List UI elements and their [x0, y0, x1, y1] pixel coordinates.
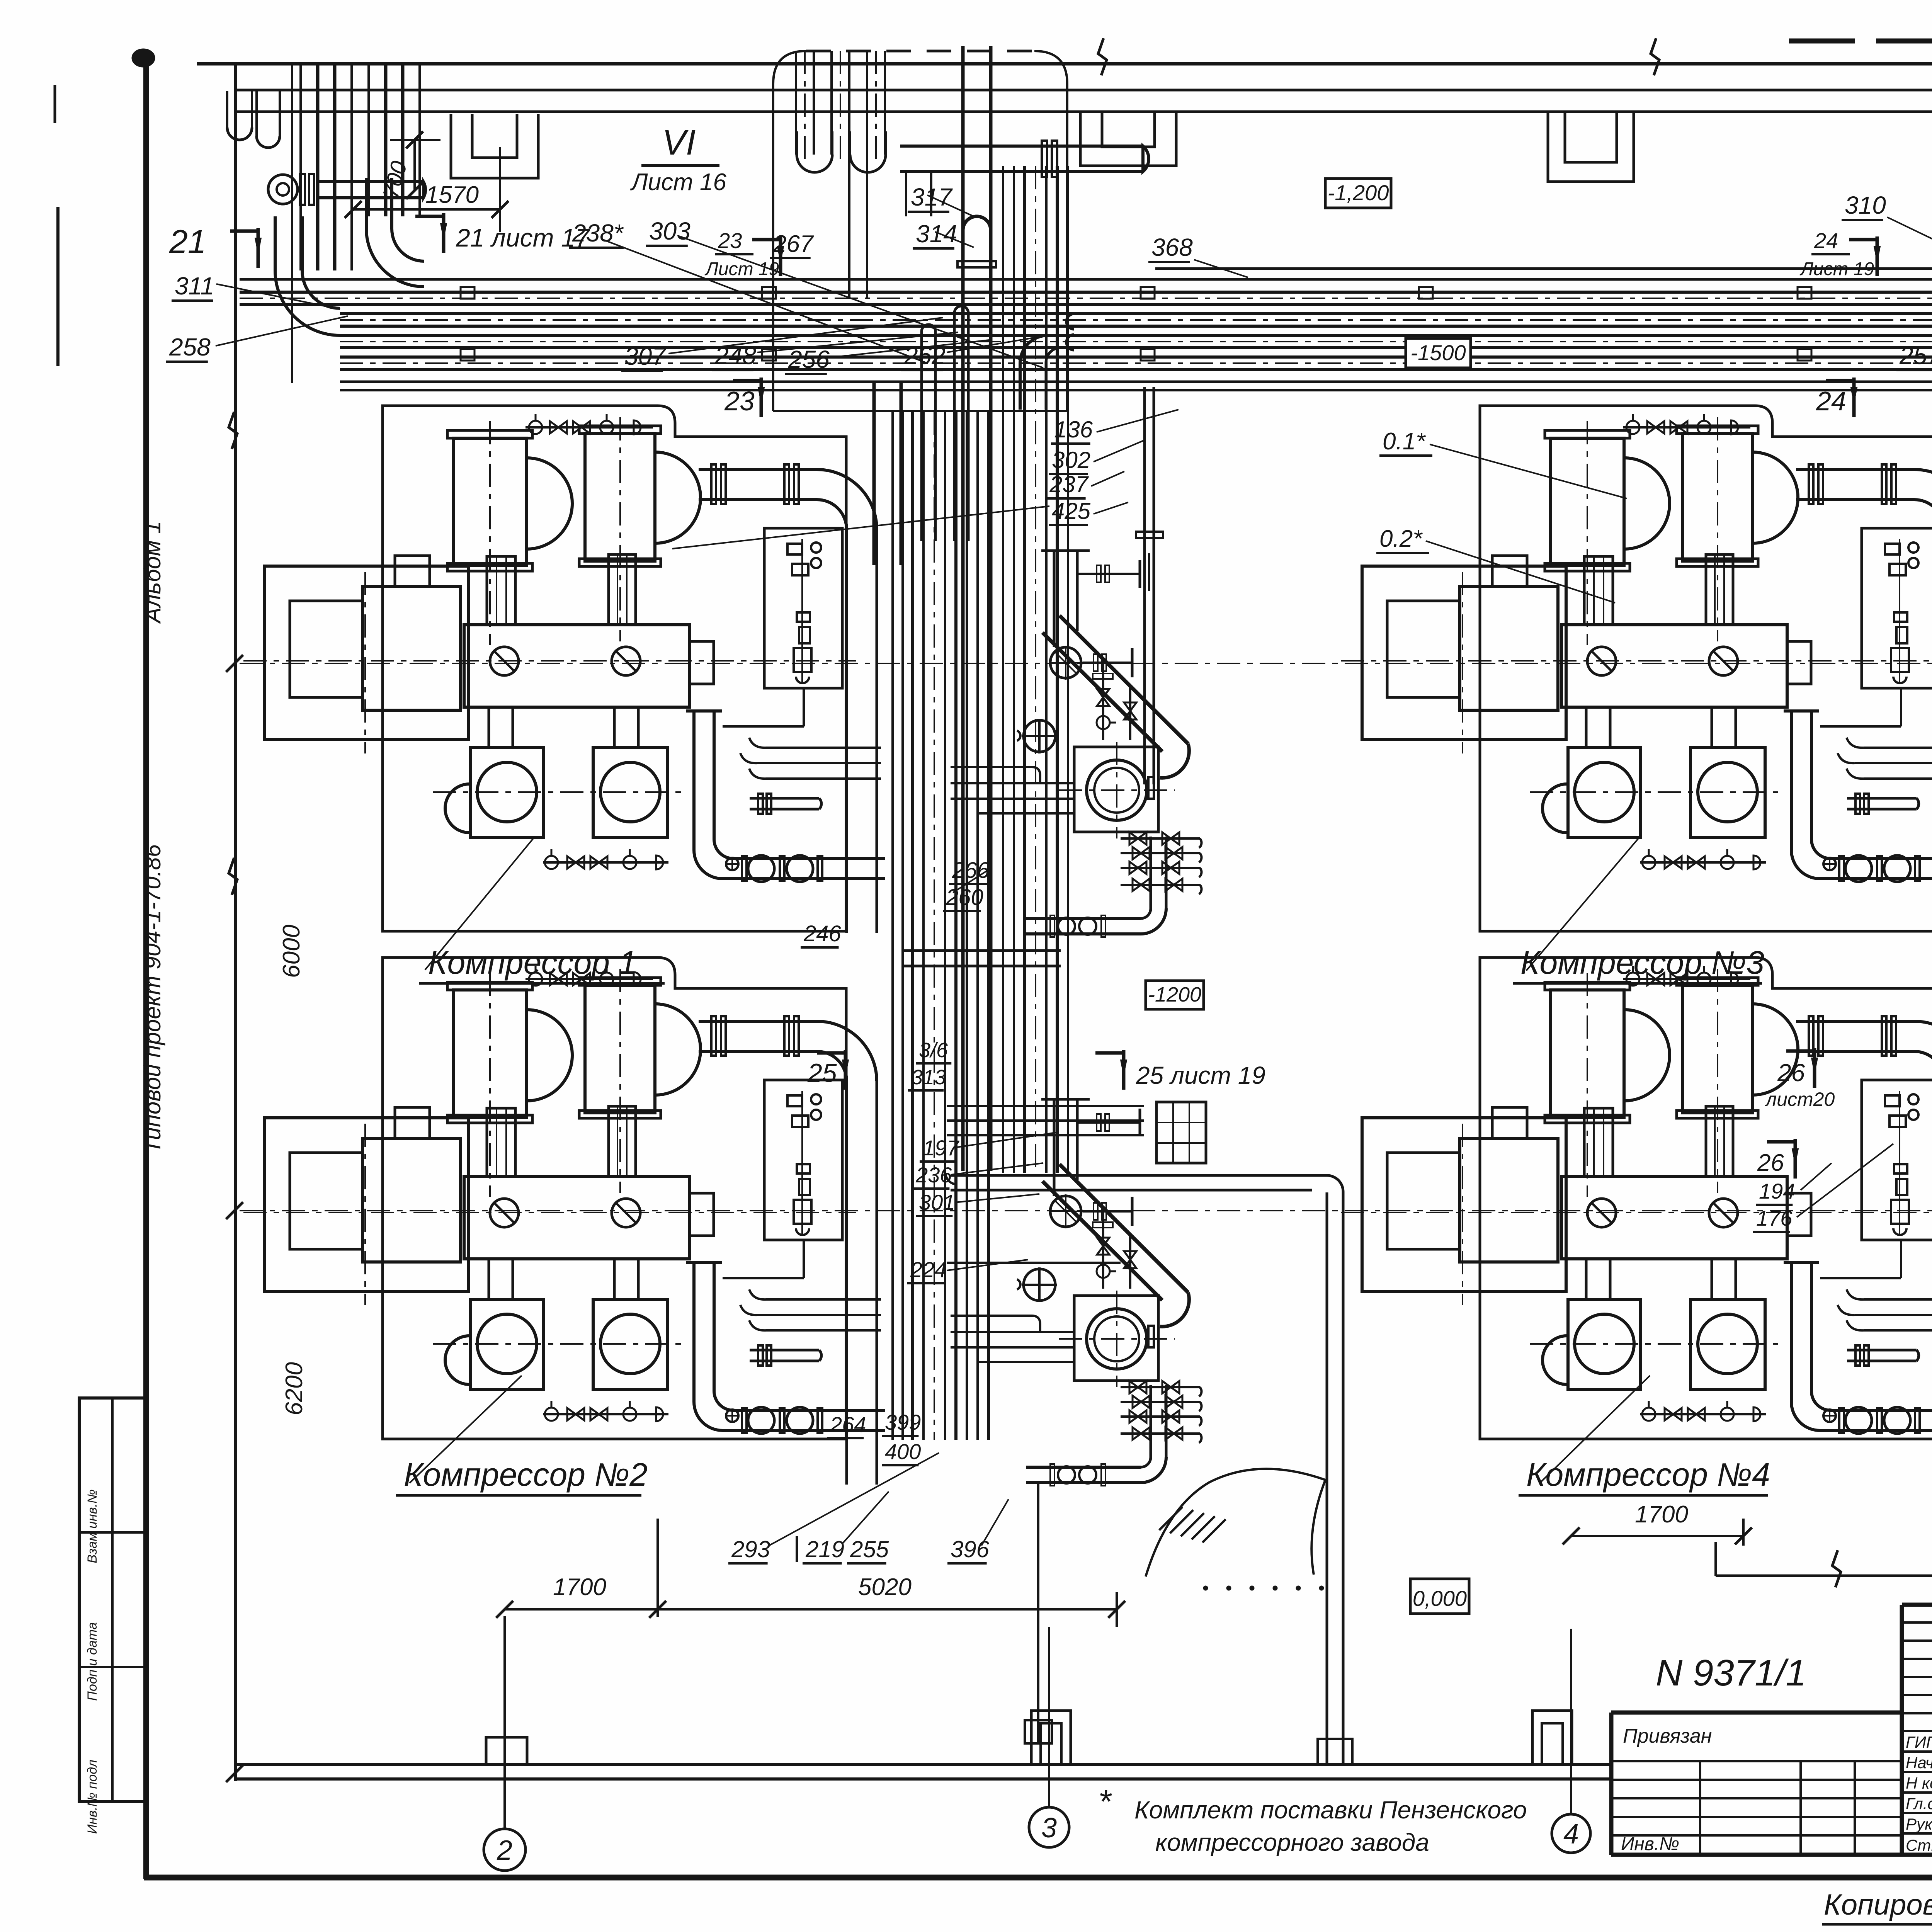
top wall niche 1	[451, 114, 538, 178]
svg-text:224: 224	[910, 1257, 946, 1282]
svg-text:Компрессор №2: Компрессор №2	[404, 1456, 648, 1493]
svg-text:0,000: 0,000	[1413, 1586, 1467, 1611]
left half vertical pipe bundle	[891, 412, 894, 1440]
svg-text:Компрессор 1: Компрессор 1	[428, 944, 637, 981]
svg-text:310: 310	[1845, 191, 1886, 219]
pipe supports on band	[461, 287, 474, 299]
svg-text:425: 425	[1052, 498, 1091, 524]
svg-text:Ст.ЧНИ: Ст.ЧНИ	[1906, 1836, 1932, 1854]
main horizontal pipe band	[240, 278, 1932, 281]
zone VI inner pipes	[795, 51, 797, 155]
svg-text:Инв.№: Инв.№	[1621, 1834, 1679, 1854]
frame bottom heavy line	[144, 1875, 1932, 1881]
drawing frame left heavy line	[143, 53, 149, 1879]
top-left flanged valve	[268, 175, 298, 204]
compressor unit 1	[243, 414, 885, 933]
separator cluster unit 2	[951, 1099, 1202, 1486]
svg-text:Копировал Васильева: Копировал Васильева	[1824, 1888, 1932, 1921]
svg-text:*: *	[1098, 1783, 1112, 1820]
svg-text:256: 256	[788, 345, 830, 373]
compressor unit 2	[243, 966, 885, 1485]
level label -1500	[1406, 338, 1471, 368]
axis row В centreline	[240, 663, 1932, 664]
svg-text:Альбом 1: Альбом 1	[139, 521, 165, 624]
svg-text:301: 301	[919, 1190, 955, 1214]
svg-text:3/6: 3/6	[919, 1039, 948, 1062]
title block outer	[1611, 1711, 1902, 1715]
svg-text:6200: 6200	[281, 1362, 308, 1415]
svg-text:303: 303	[649, 217, 690, 245]
svg-text:0.1*: 0.1*	[1383, 428, 1426, 455]
band pipe end hooks	[1066, 314, 1074, 329]
line to page corner	[1714, 1542, 1717, 1576]
level label -1200 left centre	[1146, 981, 1204, 1009]
building left wall	[234, 64, 237, 1781]
top-left pipe dome caps	[227, 128, 252, 140]
svg-text:Н контр.: Н контр.	[1906, 1774, 1932, 1792]
leader lines top-left	[216, 284, 340, 309]
svg-text:VI: VI	[662, 123, 696, 162]
svg-text:Привязан: Привязан	[1623, 1725, 1712, 1747]
svg-text:Лист 16: Лист 16	[630, 169, 726, 196]
dimension 6000 left	[226, 655, 243, 672]
label 21 лист 17	[415, 213, 447, 253]
svg-text:Типовой проект 904-1-70.86: Типовой проект 904-1-70.86	[139, 844, 165, 1153]
top wall niche 2	[1080, 113, 1176, 166]
dimension line 1700/5020 bottom	[505, 1608, 1117, 1611]
svg-text:0.2*: 0.2*	[1379, 526, 1423, 552]
svg-text:368: 368	[1151, 233, 1193, 261]
svg-text:25 лист 19: 25 лист 19	[1136, 1061, 1265, 1089]
horizontal pipes below upper units	[947, 1105, 1144, 1107]
svg-text:4: 4	[1563, 1819, 1579, 1850]
svg-text:Взам инв.№: Взам инв.№	[85, 1489, 100, 1563]
grid circle 3	[1048, 1627, 1050, 1807]
frame top-right heavy dashed line	[1789, 39, 1932, 44]
band left elbow 311	[366, 229, 424, 287]
top wall niche 3	[1548, 113, 1634, 182]
horizontal pipe 224	[947, 1262, 1121, 1264]
svg-text:Лист 19: Лист 19	[704, 259, 779, 279]
svg-text:136: 136	[1054, 417, 1093, 442]
svg-text:1570: 1570	[425, 182, 479, 208]
level label 0,000	[1410, 1579, 1469, 1614]
compressor unit 2 zone outline	[383, 957, 846, 1439]
dimension 1570 top-left	[353, 208, 500, 211]
svg-text:2: 2	[497, 1835, 512, 1866]
svg-text:-1200: -1200	[1148, 983, 1201, 1006]
svg-text:Гл.спец: Гл.спец	[1906, 1794, 1932, 1813]
building bottom wall	[235, 1763, 1612, 1766]
building top wall	[197, 62, 1932, 66]
svg-text:24: 24	[1816, 386, 1846, 416]
svg-text:260: 260	[946, 885, 983, 910]
dimension 700 top-left	[413, 140, 416, 190]
capped riser 262	[953, 313, 956, 541]
svg-text:лист20: лист20	[1765, 1088, 1835, 1110]
svg-text:176: 176	[1756, 1206, 1793, 1230]
svg-text:313: 313	[911, 1066, 946, 1089]
svg-text:23: 23	[724, 386, 755, 416]
compressor unit 4 zone outline	[1480, 957, 1932, 1439]
left paper edge marks	[54, 85, 56, 123]
centre bundle lower bend	[951, 1174, 1327, 1177]
svg-text:компрессорного завода: компрессорного завода	[1155, 1828, 1429, 1856]
svg-text:Нач отд: Нач отд	[1906, 1753, 1932, 1772]
zone VI rounded boundary	[773, 51, 806, 411]
dotted floor marks left	[1203, 1586, 1208, 1590]
top-left vertical pipes	[299, 65, 302, 270]
svg-text:Компрессор №4: Компрессор №4	[1526, 1456, 1770, 1493]
svg-text:255: 255	[850, 1536, 889, 1562]
svg-text:-1500: -1500	[1410, 340, 1466, 365]
svg-text:219: 219	[805, 1536, 844, 1562]
svg-text:26: 26	[1777, 1059, 1805, 1087]
svg-text:Комплект поставки Пензенског: Комплект поставки Пензенского	[1134, 1796, 1527, 1824]
svg-text:ГИП: ГИП	[1906, 1733, 1932, 1751]
compressor unit 1 zone outline	[383, 406, 846, 931]
capped riser 256	[920, 332, 923, 541]
svg-text:264: 264	[830, 1412, 866, 1437]
compressor unit 3	[1341, 414, 1932, 933]
svg-text:197: 197	[923, 1136, 959, 1160]
compressor unit 4	[1341, 966, 1932, 1485]
elbow into centre bundle	[1020, 335, 1048, 363]
svg-text:237: 237	[1049, 471, 1089, 497]
fat band riser unit 1	[872, 383, 876, 565]
svg-text:258: 258	[169, 333, 211, 361]
ink blob top-left	[132, 49, 155, 67]
bottom wall column stubs	[486, 1737, 527, 1764]
svg-text:246: 246	[803, 921, 842, 946]
wall break marks	[1098, 38, 1107, 75]
pipe from zone VI to right	[900, 145, 1143, 148]
compressor unit 3 zone outline	[1480, 406, 1932, 931]
svg-text:311: 311	[175, 272, 214, 300]
grid circle 4	[1570, 1629, 1572, 1814]
building bottom-right wall line	[1716, 1575, 1932, 1577]
svg-text:Рук гр: Рук гр	[1906, 1815, 1932, 1833]
separator cluster unit 1	[951, 551, 1202, 937]
svg-text:400: 400	[885, 1439, 921, 1464]
grid circle 2	[503, 1616, 506, 1829]
svg-text:Подп и дата: Подп и дата	[85, 1622, 100, 1701]
ground hatch scribble left	[1146, 1469, 1325, 1577]
svg-text:3: 3	[1041, 1813, 1057, 1844]
pipes down to bottom wall	[1327, 1175, 1343, 1192]
svg-text:293: 293	[731, 1536, 770, 1562]
svg-text:23: 23	[718, 228, 742, 253]
svg-text:314: 314	[916, 220, 957, 248]
svg-text:236: 236	[915, 1163, 952, 1187]
svg-text:21: 21	[169, 223, 206, 260]
svg-text:396: 396	[951, 1536, 990, 1562]
svg-text:5020: 5020	[858, 1574, 912, 1600]
svg-text:-1,200: -1,200	[1328, 180, 1389, 205]
svg-text:Компрессор №3: Компрессор №3	[1520, 944, 1764, 981]
svg-text:Лист 19: Лист 19	[1799, 259, 1874, 279]
left margin table	[79, 1398, 146, 1801]
level label -1,200 top	[1325, 179, 1391, 208]
fat centre riser pipe	[961, 46, 965, 1171]
svg-text:1700: 1700	[1635, 1501, 1688, 1528]
svg-text:267: 267	[773, 231, 814, 257]
band left elbow 258	[275, 270, 340, 335]
svg-text:25: 25	[807, 1058, 837, 1088]
svg-text:N 9371/1: N 9371/1	[1656, 1652, 1806, 1694]
axis row Б centreline	[240, 1210, 1932, 1211]
svg-text:238*: 238*	[572, 219, 624, 247]
svg-text:6000: 6000	[278, 925, 305, 978]
svg-text:24: 24	[1814, 228, 1838, 253]
svg-text:302: 302	[1052, 447, 1090, 473]
svg-text:194: 194	[1759, 1179, 1795, 1203]
svg-text:307: 307	[624, 342, 667, 370]
svg-text:257: 257	[1899, 342, 1932, 369]
window grid symbol left	[1156, 1102, 1206, 1163]
dimension 1700 bottom right	[1571, 1535, 1743, 1537]
svg-text:399: 399	[885, 1410, 921, 1434]
lower horizontal pipes left half	[904, 949, 1061, 952]
pipe 136 riser	[1143, 387, 1146, 784]
svg-text:Инв.№ подл: Инв.№ подл	[85, 1760, 100, 1834]
svg-text:266: 266	[952, 858, 990, 883]
svg-text:1700: 1700	[553, 1574, 606, 1600]
svg-text:248: 248	[714, 342, 756, 369]
centre vertical pipe bundle	[1002, 166, 1004, 1173]
svg-text:26: 26	[1757, 1150, 1784, 1176]
